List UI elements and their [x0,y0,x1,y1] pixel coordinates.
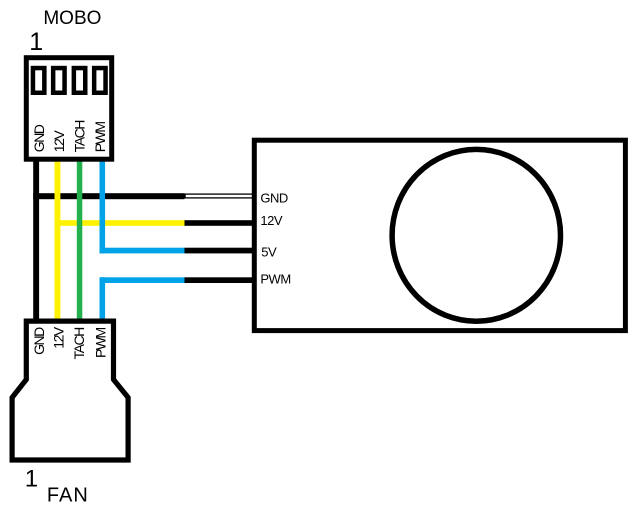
svg-text:1: 1 [29,28,43,56]
svg-text:12V: 12V [50,326,66,349]
FAN connector body [12,321,128,460]
svg-text:PWM: PWM [260,272,290,287]
svg-text:5V: 5V [261,245,277,260]
svg-text:PWM: PWM [92,122,108,153]
svg-text:GND: GND [31,124,47,152]
wire PWM horizontal (blue) [100,277,185,283]
wire 12V horizontal black tail [185,220,253,226]
svg-text:GND: GND [31,327,47,355]
svg-text:12V: 12V [51,130,67,153]
svg-text:TACH: TACH [71,121,87,152]
wire GND white-core segment to box [185,194,253,198]
svg-text:PWM: PWM [93,327,109,358]
wire PWM horizontal black tail [185,277,253,283]
wire 5V horizontal (blue) [100,248,185,254]
fan hub box [254,140,625,330]
svg-text:TACH: TACH [71,328,87,359]
pin 3 (MOBO) [72,66,88,95]
wire TACH vertical (green) [77,158,83,322]
wire GND horizontal (black) [33,193,184,199]
wire PWM-to-5V vertical (blue, upper) [100,158,106,253]
wire 12V horizontal (yellow) [55,220,185,226]
svg-text:GND: GND [260,190,288,205]
svg-text:1: 1 [25,466,38,493]
svg-text:12V: 12V [260,213,282,228]
MOBO connector body [26,58,111,160]
wire GND vertical (black) [33,158,39,322]
pin 4 (MOBO) [92,66,108,95]
pin 1 (MOBO) [31,66,47,95]
wire PWM vertical (blue, lower) [100,277,106,322]
svg-text:FAN: FAN [47,485,89,507]
fan circle [392,149,560,321]
pin 2 (MOBO) [51,66,67,95]
wire 5V horizontal black tail [185,248,253,254]
svg-text:MOBO: MOBO [43,8,101,29]
wire 12V vertical (yellow) [55,158,61,322]
